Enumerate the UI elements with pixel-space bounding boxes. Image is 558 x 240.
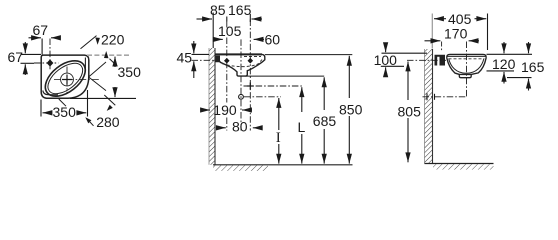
dim 805 vertical line — [407, 62, 409, 163]
dim L vertical line — [301, 87, 303, 163]
dim 80 arrows — [217, 127, 260, 129]
svg-text:100: 100 — [374, 52, 398, 68]
dim 45 extension lines — [192, 53, 210, 55]
basin centerline vertical — [466, 42, 468, 98]
405 left extension gray line — [431, 14, 433, 49]
basin inner rim line bottom-left — [43, 91, 58, 95]
dim 100 ref lines — [381, 45, 427, 76]
trap tick at wall — [426, 93, 428, 100]
dim 220: arrowhead down — [95, 38, 100, 45]
dim 280: arrow tail line — [90, 122, 94, 126]
svg-text:60: 60 — [265, 32, 281, 48]
basin profile top edge thick — [215, 53, 262, 55]
dim 350 right: dimension line with arrows — [70, 57, 136, 99]
dim 67 left: extension lines — [21, 53, 42, 55]
basin foot — [459, 74, 471, 77]
svg-text:350: 350 — [118, 64, 142, 80]
svg-text:280: 280 — [96, 114, 120, 130]
tap hole centerline horizontal — [34, 62, 59, 64]
tap hole diamond — [47, 59, 54, 66]
front edge extension line down-right — [89, 77, 106, 91]
dim I vertical line — [278, 98, 280, 164]
dim 350 bottom: arrows — [41, 90, 88, 117]
dim 45 arrows — [192, 41, 210, 78]
dim 165 arrows — [528, 42, 530, 53]
svg-text:350: 350 — [53, 104, 77, 120]
svg-text:220: 220 — [101, 32, 125, 48]
dim 280: upper diagonal line — [104, 95, 115, 105]
dim 85/165 line arrows — [197, 13, 263, 49]
svg-text:170: 170 — [444, 26, 468, 42]
basin inner bowl line — [449, 59, 484, 74]
drain centerline horizontal — [54, 79, 101, 81]
fixing hole 2 centerline — [249, 20, 251, 131]
floor line right view — [425, 163, 494, 165]
dim 67 top: extension line — [41, 39, 43, 55]
rim back reference gray dashed line — [87, 54, 130, 56]
trap centerline horizontal — [423, 96, 467, 98]
svg-text:685: 685 — [313, 113, 337, 129]
svg-text:120: 120 — [492, 56, 516, 72]
dim 350 bottom: extension lines — [40, 100, 42, 117]
basin front outer — [447, 55, 486, 75]
top rim reference line (850) — [265, 54, 352, 56]
drain outlet circle — [239, 94, 244, 99]
dim 220: extension line diagonal — [81, 36, 97, 49]
drain centerline vertical — [66, 67, 68, 94]
dim 405 arrows — [434, 14, 488, 51]
bracket centerline — [407, 59, 446, 61]
floor line — [213, 164, 353, 166]
drain centerline vertical — [240, 39, 242, 130]
svg-text:850: 850 — [339, 102, 363, 118]
wall face line — [214, 48, 216, 165]
floor hatch — [213, 165, 268, 171]
dim 220: arrow tail line — [110, 59, 118, 66]
svg-text:85: 85 — [210, 2, 226, 18]
165 extension line — [249, 14, 251, 22]
basin hidden dashed line — [449, 58, 485, 60]
dim 120 arrows — [503, 42, 505, 53]
dim 350 right: bottom extension line — [70, 97, 136, 99]
svg-text:L: L — [298, 119, 306, 135]
fixing hole 2 cross mark — [247, 83, 254, 90]
basin inner rim line right — [84, 58, 86, 71]
dim 685 vertical line — [323, 77, 325, 163]
dim 67 top: dimension line arrows — [29, 38, 59, 55]
dim 280: arrowhead toward lower-left — [107, 105, 113, 111]
svg-text:105: 105 — [218, 23, 242, 39]
fixing hole 2 diamond — [248, 58, 254, 64]
svg-text:I: I — [276, 130, 281, 146]
dim 67 left: arrows — [21, 42, 42, 75]
dim 280: extension line from bottom edge — [59, 99, 66, 106]
front edge extension line up-right — [89, 62, 106, 77]
drain reference centerline (I) — [244, 96, 281, 98]
boss bottom reference line (685) — [246, 75, 325, 77]
dim 170 arrows — [425, 40, 480, 42]
bracket on wall — [435, 55, 446, 66]
fixing hole 1 centerline — [226, 22, 228, 131]
dim 850 vertical line — [348, 56, 350, 164]
svg-text:805: 805 — [398, 104, 422, 120]
dim 190 arrows — [203, 109, 253, 111]
wall face extension line up — [212, 13, 214, 49]
basin rim bottom line — [447, 55, 486, 57]
dim 105/60 dimension line — [215, 38, 264, 40]
drain hole circle — [61, 73, 74, 86]
hidden rim dashed line — [244, 56, 261, 58]
wall hatch — [209, 48, 215, 165]
dim 220: arrowhead up — [104, 51, 109, 58]
hidden bowl dashed line — [222, 60, 262, 67]
dim 170 left extension — [441, 42, 443, 53]
bowl inner rim ellipse — [43, 57, 88, 99]
dim 45 lower centerline — [192, 59, 216, 61]
trap tick at wall face — [434, 94, 436, 100]
svg-text:67: 67 — [33, 22, 49, 38]
tap hole centerline vertical — [49, 39, 51, 71]
svg-text:165: 165 — [228, 2, 252, 18]
basin profile outer — [215, 54, 265, 76]
wall hatch right view — [425, 49, 433, 164]
svg-text:67: 67 — [8, 49, 24, 65]
dim 120/165 ref lines — [487, 42, 533, 91]
floor hatch right view — [433, 164, 494, 170]
dim 85 tick — [226, 17, 228, 22]
dim 405 right extension — [487, 14, 489, 51]
svg-text:165: 165 — [521, 59, 545, 75]
fixing hole 1 diamond — [224, 58, 230, 64]
dim 280: arrowhead toward upper-left — [85, 117, 91, 123]
svg-text:80: 80 — [232, 119, 248, 135]
mounting section dark block — [215, 56, 220, 62]
bowl outer ellipse — [39, 54, 92, 104]
svg-text:190: 190 — [213, 102, 237, 118]
drain cross — [62, 75, 72, 85]
svg-text:45: 45 — [177, 50, 193, 66]
hole reference centerline (L) — [244, 85, 302, 87]
basin plan outline — [41, 55, 89, 98]
